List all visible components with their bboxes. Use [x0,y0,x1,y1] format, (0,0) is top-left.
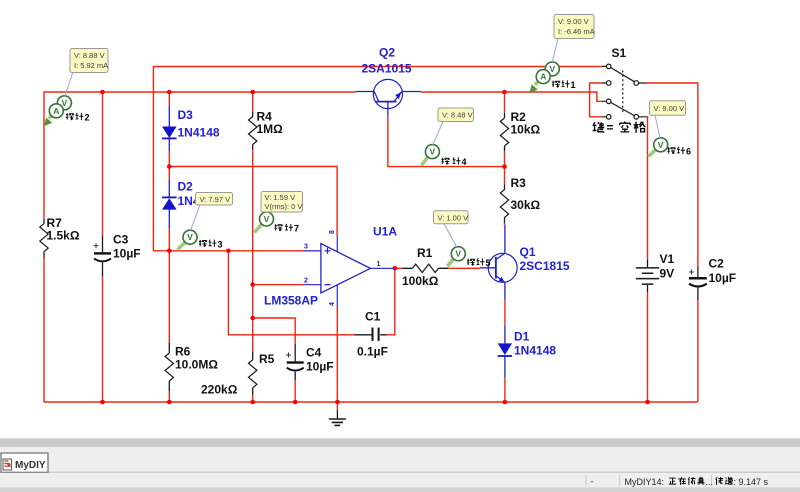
svg-text:3: 3 [218,239,223,249]
capacitor C4 [286,344,334,380]
svg-text:1N4148: 1N4148 [514,344,556,358]
node dots [100,90,105,95]
svg-text:100kΩ: 100kΩ [402,274,439,288]
svg-text:10.0MΩ: 10.0MΩ [175,358,218,372]
svg-text:V: V [187,232,193,242]
wire node B rail to pin8 [169,167,337,237]
resistor R1 [402,246,448,288]
tooltip probe5 [434,211,469,247]
svg-text:A: A [540,72,546,82]
svg-text:Q2: Q2 [379,46,395,60]
svg-text:U1A: U1A [373,225,397,239]
tooltip probe6 [650,101,686,138]
svg-text:2: 2 [304,277,308,284]
resistor R2 [500,110,540,151]
tooltip probe3 [191,193,233,231]
svg-text:...: ... [706,477,714,487]
probe 探针1 (A/V) [530,62,576,93]
svg-text:9V: 9V [660,267,675,281]
tooltip probe4 [433,108,474,145]
svg-text:: 9.147 s: : 9.147 s [734,477,769,487]
capacitor C3 [94,233,141,277]
svg-text:C4: C4 [306,346,322,360]
transistor Q2 [356,46,421,117]
switch S1 [602,46,647,119]
svg-text:1MΩ: 1MΩ [257,122,284,136]
svg-text:R6: R6 [175,345,191,359]
svg-text:1N4148: 1N4148 [178,126,220,140]
wire C1 feedback line [228,251,394,335]
svg-text:R1: R1 [417,246,433,260]
svg-text:8: 8 [329,230,336,234]
svg-text:V: 9.00 V: V: 9.00 V [654,104,685,113]
status band [0,473,800,487]
wire pin3 line [153,250,303,252]
svg-text:10kΩ: 10kΩ [511,123,541,137]
svg-text:7: 7 [294,224,299,234]
svg-text:C1: C1 [365,310,381,324]
resistor R6 [165,343,218,391]
svg-text:D3: D3 [178,108,194,122]
wire Q2 base down and right [388,117,505,167]
svg-text:V(rms): 0 V: V(rms): 0 V [265,202,303,211]
svg-text:V: 8.48 V: V: 8.48 V [442,111,473,120]
probe 探针3 (V) [178,230,223,250]
svg-text:30kΩ: 30kΩ [511,198,541,212]
svg-text:2SC1815: 2SC1815 [520,259,570,273]
svg-text:R5: R5 [259,352,275,366]
resistor R5 [201,352,275,397]
svg-text:C2: C2 [709,257,725,271]
svg-text:I: -6.46 mA: I: -6.46 mA [558,27,595,36]
wire top rail [153,67,601,251]
svg-text:C3: C3 [113,233,129,247]
probe 探针7 (V) [255,212,300,234]
wire ground stub [336,402,338,410]
svg-text:6: 6 [686,147,691,157]
svg-text:5: 5 [486,258,491,268]
svg-text:V: V [658,140,664,150]
svg-text:MyDIY: MyDIY [15,460,46,471]
wire C4 jog [253,318,296,402]
svg-text:2SA1015: 2SA1015 [362,62,412,76]
svg-text:V1: V1 [660,252,675,266]
tooltip probe2 [65,49,108,97]
svg-text:V: 1.00 V: V: 1.00 V [438,213,469,222]
ground [329,410,346,426]
svg-text:LM358AP: LM358AP [264,294,318,308]
probe 探针2 (A/V) [44,96,90,127]
svg-text:V: 7.97 V: V: 7.97 V [200,195,231,204]
svg-text:2: 2 [85,113,90,123]
wire D3 D2 R6 column [168,92,170,402]
diode D3 [162,106,220,151]
capacitor C1 [355,310,388,359]
svg-text:V: V [430,147,436,157]
wire R2 R3 column [504,92,506,225]
svg-text:10µF: 10µF [306,360,334,374]
tooltip probe1 [552,15,594,63]
switch key label 键 = 空格 [593,121,646,135]
bottom strip [0,487,800,492]
wire ground rail bottom [44,401,698,403]
resistor R4 [249,110,284,150]
gray scrollbar strip [0,438,800,439]
battery V1 [636,252,675,292]
op-amp U1A [264,225,397,308]
svg-text:I: 5.92 mA: I: 5.92 mA [74,61,108,70]
svg-text:V: V [549,64,555,74]
resistor R7 [40,216,80,258]
wire Q2 emitter to switch D [421,92,602,101]
wire V1 column [647,117,648,402]
svg-text:V: 9.00 V: V: 9.00 V [558,17,589,26]
diode D2 [162,180,220,229]
tooltip probe7 [261,192,303,213]
svg-text:220kΩ: 220kΩ [201,383,238,397]
svg-text:R3: R3 [511,176,527,190]
wire switch CE jumper [590,83,602,117]
wire C3 column [102,92,104,402]
svg-text:D1: D1 [514,330,530,344]
wire R4 R5 column [252,92,254,402]
wire right column C2 [647,83,698,402]
svg-text:=: = [607,121,614,135]
svg-text:V: 8.88 V: V: 8.88 V [74,51,105,60]
svg-text:D2: D2 [178,180,194,194]
svg-text:10µF: 10µF [113,247,141,261]
svg-text:Q1: Q1 [520,245,536,259]
svg-text:A: A [53,106,59,116]
svg-text:-: - [591,477,594,487]
wire Q1 emitter / D1 column [504,300,506,402]
svg-text:0.1µF: 0.1µF [357,345,388,359]
svg-text:V: V [455,249,461,259]
svg-text:1: 1 [571,80,576,90]
svg-text:1: 1 [377,261,381,268]
resistor R3 [500,176,540,223]
svg-text:3: 3 [304,244,308,251]
svg-text:V: 1.59 V: V: 1.59 V [265,193,296,202]
transistor Q1 [480,225,570,300]
svg-text:1.5kΩ: 1.5kΩ [47,229,80,243]
svg-text:10µF: 10µF [709,271,737,285]
wire left column lower [43,258,45,403]
svg-text:MyDIY14:: MyDIY14: [625,477,665,487]
probe 探针5 (V) [447,247,490,268]
svg-text:S1: S1 [612,46,627,60]
wire output to R1 to Q1 base [395,267,480,269]
tab strip [0,447,800,472]
probe 探针6 (V) [649,138,692,157]
tab MyDIY [1,453,48,472]
svg-text:4: 4 [329,302,336,306]
svg-text:4: 4 [462,157,467,167]
wire opamp pin4 to ground rail [336,306,338,402]
diode D1 [498,325,557,378]
wire pin2 line [253,284,303,286]
capacitor C2 [689,257,736,301]
wire main rail y92 left [44,92,356,219]
probe 探针4 (V) [422,145,467,167]
svg-text:V: V [264,214,270,224]
